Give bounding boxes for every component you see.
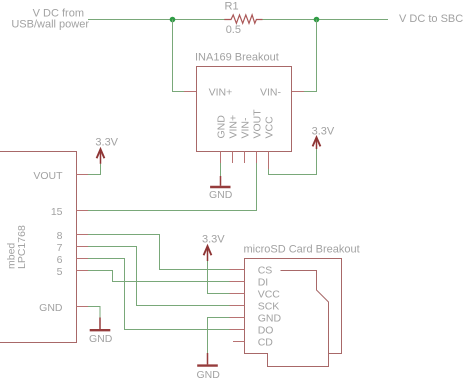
pin GND stub bbox=[220, 152, 222, 164]
svg-text:3.3V: 3.3V bbox=[312, 125, 335, 137]
junction node A bbox=[170, 17, 176, 23]
label V DC from USB/wall power bbox=[11, 7, 89, 30]
svg-text:CD: CD bbox=[258, 337, 274, 349]
wire top rail right bbox=[256, 19, 388, 21]
svg-text:15: 15 bbox=[51, 206, 63, 218]
wire INA GND down bbox=[220, 163, 222, 176]
svg-text:VCC: VCC bbox=[258, 289, 281, 301]
pin GND stub (microSD) bbox=[230, 317, 245, 319]
IC INA169 breakout box bbox=[197, 67, 292, 152]
svg-text:7: 7 bbox=[57, 242, 63, 254]
power 3.3V arrow (microSD VCC) bbox=[202, 233, 225, 261]
wire INA VOUT to mbed pin15 bbox=[88, 163, 257, 211]
svg-text:LPC1768: LPC1768 bbox=[16, 225, 28, 269]
pin VOUT stub (mbed) bbox=[77, 174, 89, 176]
pin VIN- bottom stub bbox=[244, 152, 246, 164]
pin 7 stub bbox=[77, 246, 89, 248]
svg-text:USB/wall power: USB/wall power bbox=[11, 19, 89, 31]
wire 3.3V to microSD VCC bbox=[208, 261, 230, 294]
svg-text:5: 5 bbox=[57, 266, 63, 278]
ground symbol mbed bbox=[89, 318, 113, 346]
svg-text:GND: GND bbox=[39, 302, 63, 314]
svg-text:3.3V: 3.3V bbox=[202, 233, 225, 245]
svg-text:6: 6 bbox=[57, 254, 63, 266]
pin VIN+ stub bbox=[184, 91, 197, 93]
pin 8 stub bbox=[77, 234, 89, 236]
svg-text:SCK: SCK bbox=[258, 301, 280, 313]
svg-text:8: 8 bbox=[57, 230, 63, 242]
wire mbed VOUT to 3.3V arrow bbox=[88, 164, 101, 175]
svg-text:3.3V: 3.3V bbox=[95, 137, 118, 149]
svg-text:DO: DO bbox=[258, 325, 274, 337]
svg-text:VIN+: VIN+ bbox=[227, 115, 239, 139]
pin 5 stub bbox=[77, 270, 89, 272]
wire mbed pin8 to microSD CS bbox=[88, 235, 230, 270]
pin 6 stub bbox=[77, 258, 89, 260]
wire microSD GND to ground bbox=[208, 318, 230, 354]
wire top rail left bbox=[88, 19, 231, 21]
pin DI stub bbox=[230, 281, 245, 283]
power 3.3V arrow (INA VCC) bbox=[312, 125, 335, 149]
pin VIN+ bottom stub bbox=[232, 152, 234, 164]
microSD card breakout box bbox=[245, 259, 342, 367]
pin CD stub bbox=[233, 341, 245, 343]
resistor R1 bbox=[224, 1, 262, 37]
svg-text:VOUT: VOUT bbox=[251, 109, 263, 139]
svg-text:VIN-: VIN- bbox=[239, 117, 251, 139]
wire mbed pin6 to microSD DO bbox=[88, 259, 230, 330]
svg-text:DI: DI bbox=[258, 277, 269, 289]
svg-text:V DC to SBC: V DC to SBC bbox=[399, 13, 463, 25]
power 3.3V arrow (mbed VOUT) bbox=[95, 137, 118, 164]
wire INA VCC to 3.3V arrow bbox=[269, 149, 317, 175]
pin VOUT stub bbox=[256, 152, 258, 164]
svg-text:VIN-: VIN- bbox=[260, 86, 282, 98]
svg-text:0.5: 0.5 bbox=[226, 24, 241, 36]
pin VCC stub bbox=[230, 293, 245, 295]
wire mbed GND down bbox=[88, 307, 100, 318]
pin VCC stub bbox=[268, 152, 270, 170]
svg-text:GND: GND bbox=[215, 115, 227, 139]
junction node B bbox=[314, 17, 320, 23]
wire mbed pin5 to microSD DI bbox=[88, 271, 230, 282]
mbed LPC1768 box bbox=[0, 152, 77, 343]
pin 15 stub bbox=[77, 210, 89, 212]
svg-text:microSD Card Breakout: microSD Card Breakout bbox=[244, 243, 360, 255]
ground symbol microSD bbox=[197, 353, 221, 381]
microSD card outline detail bbox=[281, 271, 329, 354]
wire mbed pin7 to microSD SCK bbox=[88, 247, 230, 306]
pin SCK stub bbox=[230, 305, 245, 307]
svg-text:GND: GND bbox=[258, 313, 282, 325]
pin GND stub (mbed) bbox=[77, 306, 89, 308]
svg-text:VOUT: VOUT bbox=[33, 170, 63, 182]
svg-text:GND: GND bbox=[209, 189, 233, 201]
svg-text:VCC: VCC bbox=[263, 116, 275, 139]
svg-text:GND: GND bbox=[197, 369, 221, 381]
svg-text:CS: CS bbox=[258, 265, 273, 277]
svg-text:V DC from: V DC from bbox=[33, 7, 84, 19]
svg-text:GND: GND bbox=[89, 333, 113, 345]
svg-text:INA169 Breakout: INA169 Breakout bbox=[195, 52, 279, 64]
ground symbol INA bbox=[209, 176, 233, 201]
pin CS stub bbox=[230, 269, 245, 271]
wire junction B to VIN- bbox=[304, 20, 317, 92]
svg-text:VIN+: VIN+ bbox=[209, 86, 233, 98]
svg-text:R1: R1 bbox=[225, 1, 239, 13]
pin VIN- stub bbox=[292, 91, 305, 93]
pin DO stub bbox=[230, 329, 245, 331]
wire junction A to VIN+ bbox=[173, 20, 185, 92]
